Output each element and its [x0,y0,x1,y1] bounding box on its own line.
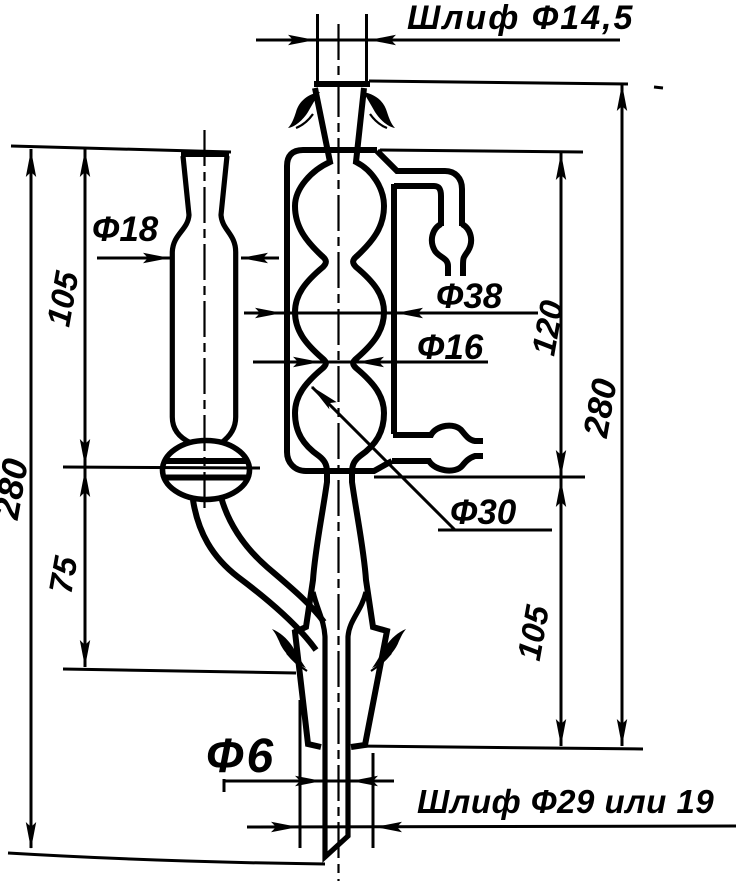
svg-text:Ф30: Ф30 [450,493,517,532]
svg-text:Шлиф Ф14,5: Шлиф Ф14,5 [407,0,634,37]
svg-text:Ф6: Ф6 [206,730,276,783]
svg-text:Ф16: Ф16 [417,328,484,367]
svg-text:Ф18: Ф18 [92,210,159,249]
svg-text:Ф38: Ф38 [436,277,503,316]
svg-text:75: 75 [42,553,85,596]
svg-text:Шлиф Ф29 или 19: Шлиф Ф29 или 19 [417,783,714,820]
